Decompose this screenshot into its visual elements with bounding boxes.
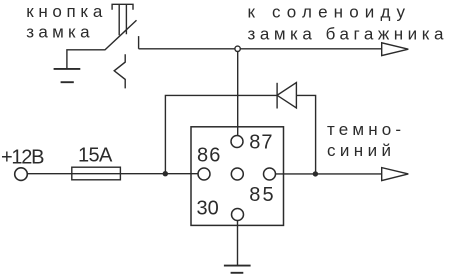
- wire: relay pin 30 to ground: [237, 221, 239, 266]
- pushbutton SW1 moving contact blade: [105, 20, 136, 49]
- ground G2: [224, 265, 251, 267]
- svg-text:замка: замка: [26, 22, 90, 41]
- relay pin 30 circle: [232, 209, 244, 221]
- pushbutton SW1 spring: [114, 54, 125, 88]
- text: кнопка замка: [26, 2, 103, 41]
- svg-text:+12В: +12В: [1, 147, 45, 169]
- arrow: dark blue wire out: [382, 168, 409, 181]
- text: 15А: [78, 145, 113, 167]
- text: +12В: [1, 147, 45, 169]
- relay center circle: [231, 168, 243, 180]
- svg-text:к соленоиду: к соленоиду: [248, 3, 406, 22]
- terminal +12V: [15, 168, 28, 181]
- relay pin 86 circle: [198, 168, 210, 180]
- relay right pin circle: [264, 168, 276, 180]
- svg-text:синий: синий: [327, 141, 391, 160]
- pushbutton SW1 plunger: [119, 4, 126, 35]
- svg-text:кнопка: кнопка: [26, 2, 103, 21]
- pushbutton SW1 right fixed contact: [138, 36, 140, 49]
- svg-text:85: 85: [249, 184, 273, 206]
- ground G1: [54, 68, 81, 70]
- wire: button left contact to ground: [67, 50, 106, 69]
- text: темно-синий: [327, 120, 401, 160]
- svg-text:30: 30: [197, 197, 219, 219]
- fuse F1: [72, 167, 121, 180]
- diode VD1 cathode bar: [276, 83, 278, 109]
- svg-text:темно-: темно-: [327, 120, 401, 139]
- diode VD1 triangle: [277, 83, 296, 108]
- text: 86: [197, 132, 274, 220]
- wire: junction down to relay pin 87: [237, 49, 239, 136]
- wire: loop from junction up over to diode: [165, 95, 277, 173]
- wire: diode to right junction: [296, 95, 315, 173]
- arrow: to trunk lock solenoid: [382, 43, 409, 56]
- pushbutton SW1 actuator cap: [112, 4, 133, 10]
- wire: button to junction to arrow: [139, 48, 382, 50]
- wire: +12V to relay pin 86: [27, 173, 198, 175]
- relay pin 87 circle: [231, 136, 243, 148]
- text: к соленоиду замка багажника: [248, 3, 445, 44]
- svg-text:15А: 15А: [78, 145, 113, 167]
- node: open junction: [235, 46, 240, 51]
- svg-text:87: 87: [249, 132, 272, 154]
- junction dot left: [163, 171, 168, 176]
- svg-text:86: 86: [197, 145, 220, 167]
- wire: relay right pin to arrow: [276, 173, 382, 175]
- svg-text:замка багажника: замка багажника: [248, 25, 445, 44]
- relay K1 body: [191, 127, 284, 226]
- junction dot right: [313, 171, 318, 176]
